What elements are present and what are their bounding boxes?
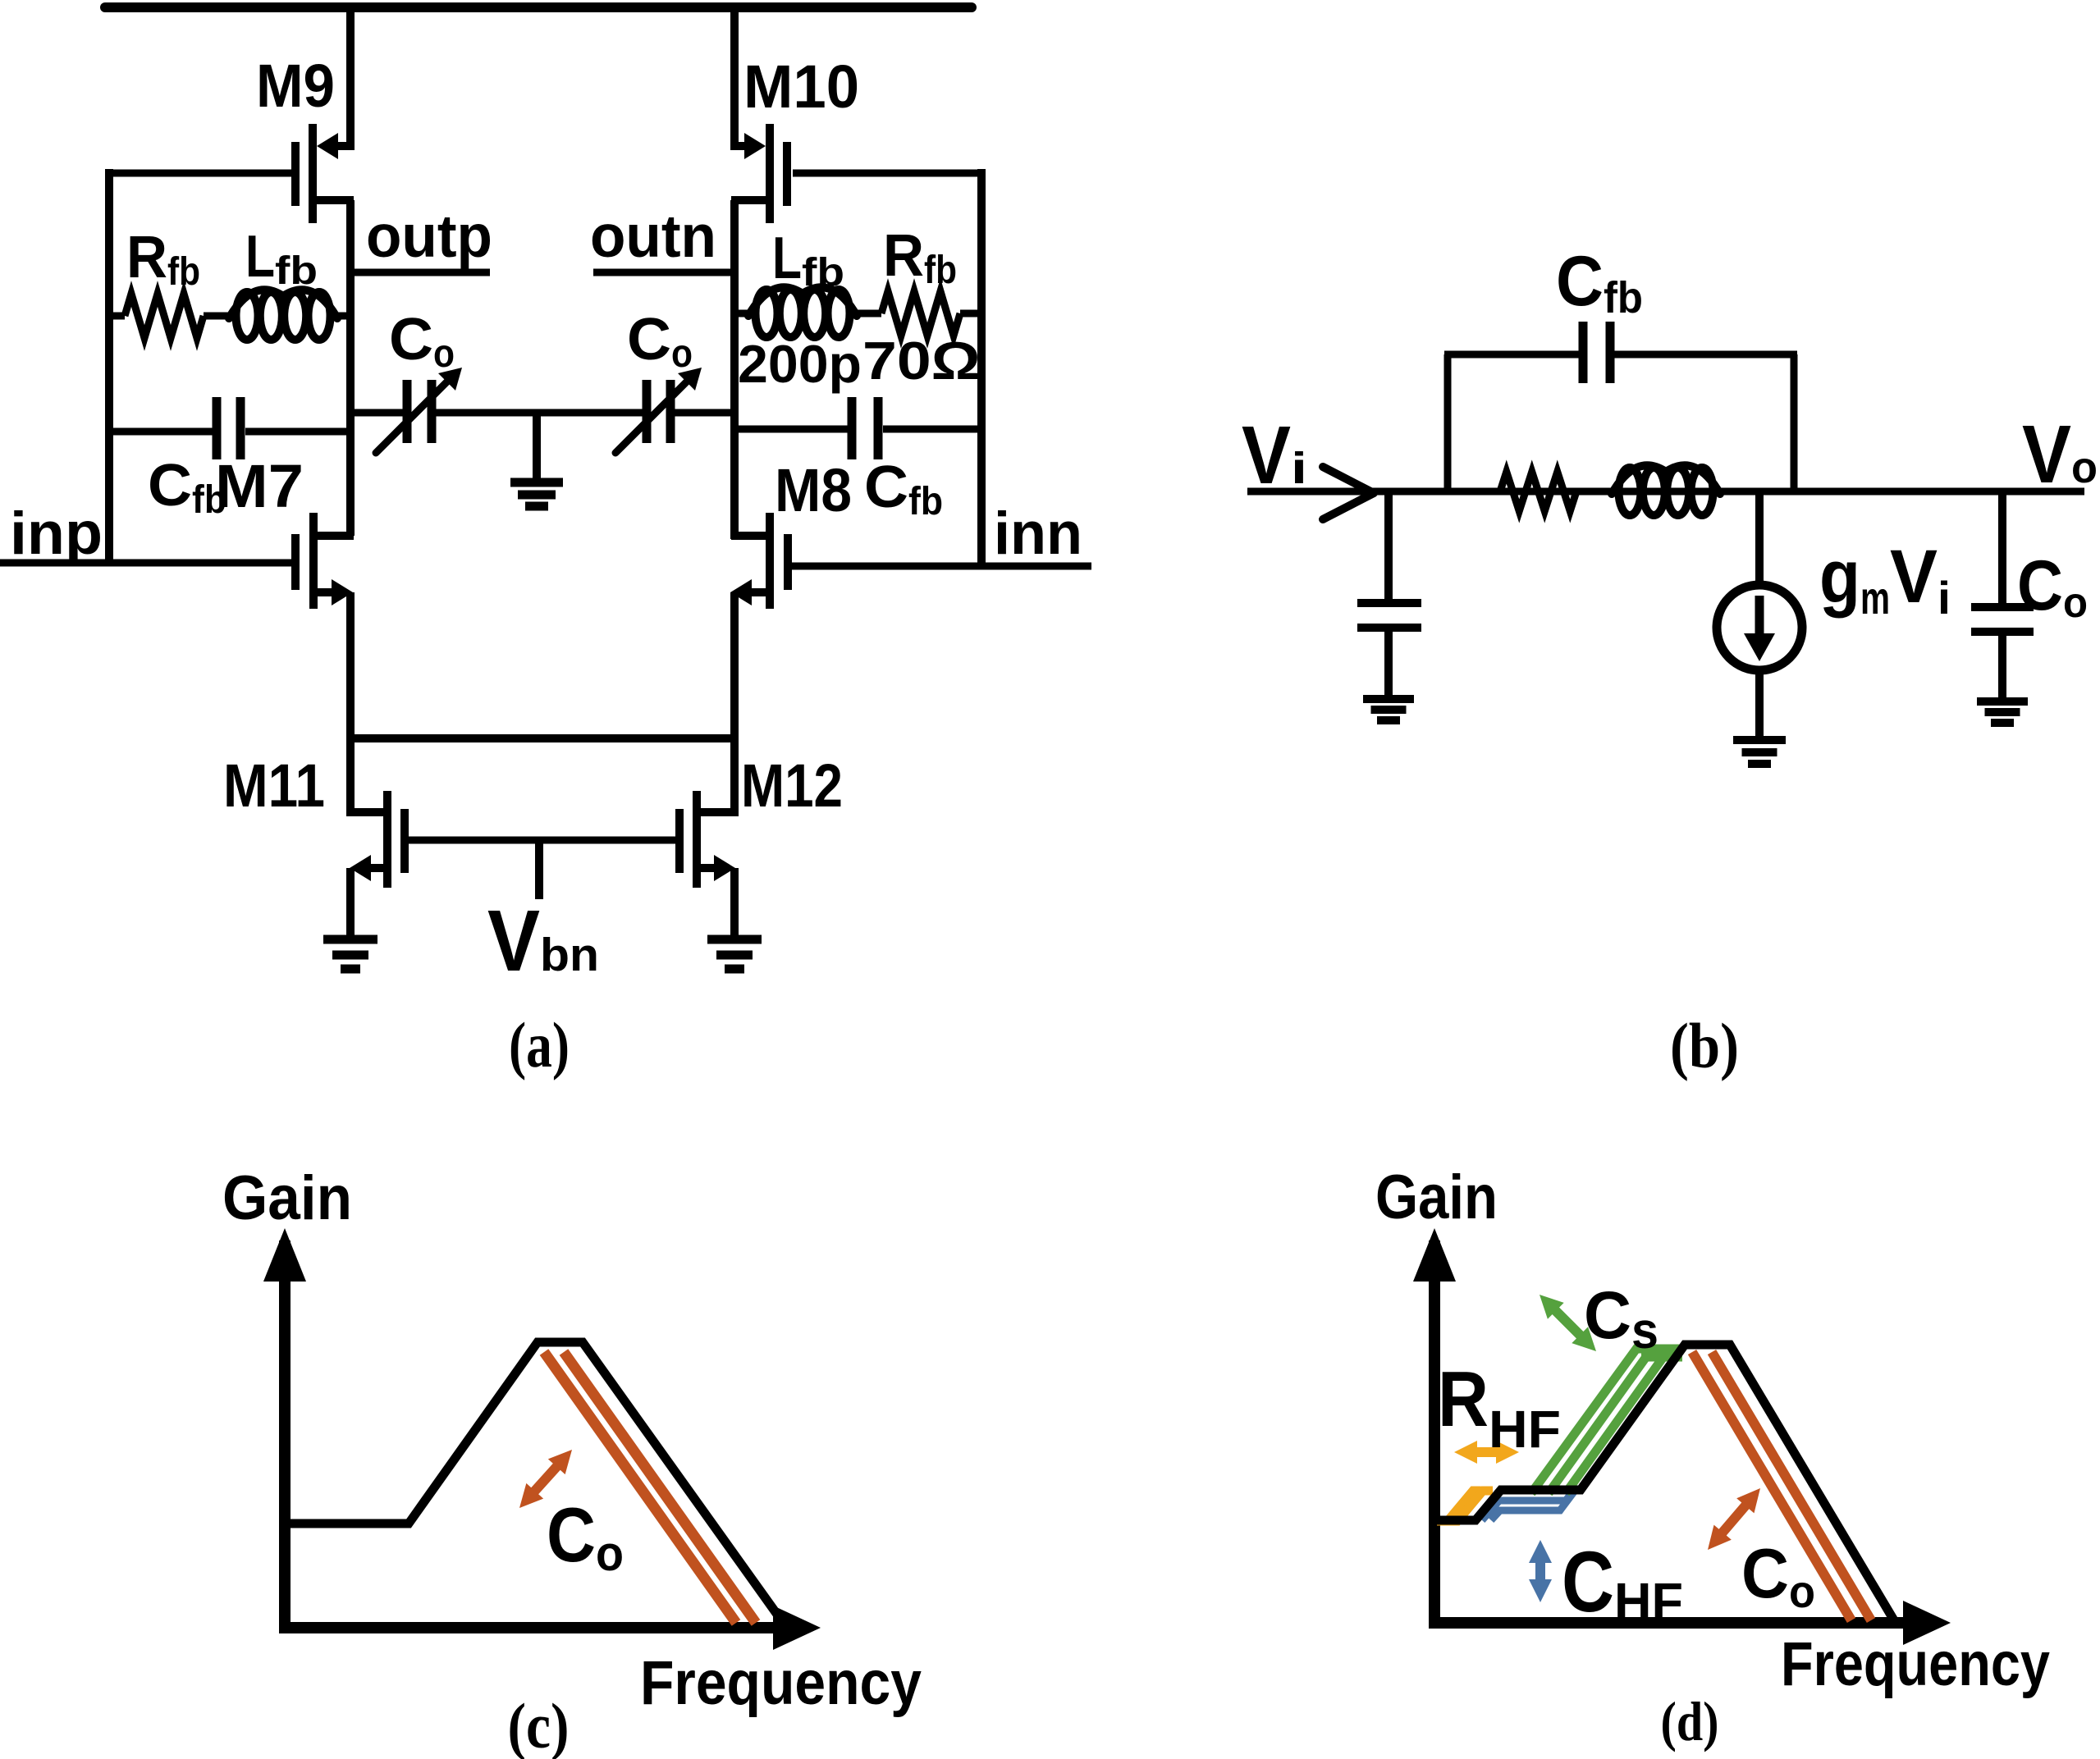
svg-text:(b): (b) bbox=[1670, 1010, 1739, 1081]
transistor M7 (NMOS) bbox=[295, 513, 354, 609]
curve Cs-shifted (green, d) bbox=[1531, 1349, 1682, 1493]
arrow CHF tuning (blue, d) bbox=[1535, 1556, 1545, 1586]
wire varactor row left bbox=[350, 409, 403, 417]
wire left feedback rail (inp node) bbox=[105, 169, 113, 563]
svg-text:M9: M9 bbox=[256, 52, 335, 120]
svg-text:outn: outn bbox=[590, 203, 716, 270]
ground under M12 bbox=[730, 868, 739, 938]
svg-text:Gain: Gain bbox=[1375, 1163, 1498, 1232]
svg-text:(c): (c) bbox=[508, 1690, 570, 1759]
curve CHF-shifted (blue, d) bbox=[1482, 1491, 1573, 1520]
varactor Co (left) bbox=[376, 368, 462, 453]
transistor M10 (PMOS) bbox=[731, 124, 787, 223]
inductor Lfb (left) bbox=[204, 313, 231, 320]
curve Co-shifted (orange, c) bbox=[544, 1352, 736, 1623]
arrow RHF tuning (gold, d) bbox=[1471, 1447, 1503, 1457]
capacitor Cfb (right) bbox=[731, 397, 985, 459]
wire M10 gate bbox=[793, 170, 985, 177]
wire M9 source to VDD bbox=[346, 7, 355, 150]
input arrow bbox=[1323, 467, 1374, 493]
svg-text:70Ω: 70Ω bbox=[862, 331, 981, 391]
wire inp to gates bbox=[0, 560, 292, 567]
curve RHF-shifted (gold, d) bbox=[1437, 1491, 1480, 1521]
varactor Co (right) bbox=[615, 368, 702, 453]
svg-text:M12: M12 bbox=[741, 752, 843, 820]
svg-text:M11: M11 bbox=[223, 752, 325, 820]
transistor M9 (PMOS) bbox=[295, 124, 354, 223]
axis Gain (c) bbox=[279, 1240, 291, 1633]
wire tail node bbox=[350, 734, 734, 742]
wire M9 gate bbox=[106, 170, 292, 177]
curve gain response (d) bbox=[1434, 1345, 1894, 1620]
wire varactor to outn branch bbox=[674, 409, 734, 417]
wire Vbn gate bus bbox=[409, 837, 676, 844]
transistor M8 (NMOS) bbox=[730, 513, 788, 609]
wire M7 source down bbox=[346, 592, 355, 742]
wire M11 drain bbox=[346, 738, 355, 816]
svg-text:M10: M10 bbox=[743, 53, 859, 121]
resistor Rfb (left) bbox=[109, 313, 125, 320]
ground under Co bbox=[1977, 697, 2028, 706]
svg-text:(a): (a) bbox=[509, 1009, 570, 1081]
wire VDD top rail bbox=[105, 2, 972, 12]
wire right feedback rail (inn node) bbox=[977, 169, 986, 566]
capacitor Cfb (left) bbox=[109, 397, 354, 459]
svg-text:Frequency: Frequency bbox=[640, 1648, 922, 1718]
ground under input cap bbox=[1363, 695, 1414, 703]
arrow Co tuning (c) bbox=[530, 1462, 560, 1496]
wire outp branch vertical bbox=[346, 200, 355, 536]
axis Gain (d) bbox=[1429, 1240, 1440, 1628]
arrow Cs tuning (green, d) bbox=[1551, 1306, 1585, 1340]
wire inn to gates bbox=[791, 563, 1091, 570]
svg-text:(d): (d) bbox=[1661, 1690, 1719, 1752]
wire outn branch vertical bbox=[730, 200, 739, 539]
node outn bbox=[593, 269, 734, 276]
arrow Co tuning (orange, d) bbox=[1718, 1501, 1750, 1537]
axis Frequency (c) bbox=[279, 1622, 780, 1633]
svg-text:outp: outp bbox=[366, 203, 492, 270]
svg-text:Frequency: Frequency bbox=[1781, 1629, 2050, 1699]
capacitor Co (b) bbox=[1971, 491, 2034, 703]
svg-text:M8: M8 bbox=[775, 456, 852, 524]
wire Vbn stub bbox=[535, 840, 543, 899]
resistor Rfb (right) bbox=[881, 291, 960, 336]
transistor M11 (NMOS current sink) bbox=[350, 791, 405, 888]
wire M12 drain bbox=[730, 738, 739, 816]
inductor (b) bbox=[1619, 468, 1641, 515]
inductor Lfb (right) bbox=[731, 310, 751, 318]
svg-text:200p: 200p bbox=[738, 334, 862, 394]
svg-text:inn: inn bbox=[994, 500, 1082, 567]
ground under current source bbox=[1733, 736, 1786, 744]
wire M10 source to VDD bbox=[730, 7, 739, 150]
axis Frequency (d) bbox=[1429, 1617, 1906, 1629]
wire Vi to Vo main line bbox=[1247, 488, 2084, 496]
wire varactor mid bbox=[436, 409, 643, 417]
curve Co-shifted (orange, d) bbox=[1692, 1352, 1851, 1620]
svg-text:Gain: Gain bbox=[222, 1163, 352, 1233]
resistor (b) bbox=[1500, 472, 1576, 511]
ground under M11 bbox=[346, 868, 355, 938]
curve gain response (c) bbox=[291, 1342, 784, 1624]
capacitor Cfb feedback loop bbox=[1444, 322, 1797, 491]
wire M8 source down bbox=[730, 592, 739, 742]
capacitor Cgs at input node bbox=[1357, 491, 1421, 701]
current source gmVi bbox=[1717, 491, 1802, 738]
transistor M12 (NMOS current sink) bbox=[679, 791, 735, 888]
svg-text:M7: M7 bbox=[215, 452, 304, 520]
ground center tap bbox=[533, 413, 541, 479]
node outp bbox=[350, 269, 490, 276]
svg-text:inp: inp bbox=[10, 500, 103, 567]
